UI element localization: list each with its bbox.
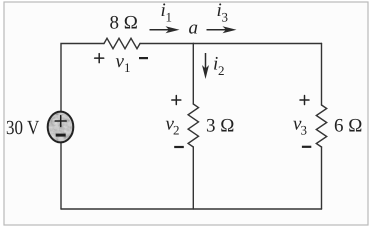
wire middle branch upper (node a down to R2) — [192, 44, 194, 105]
polarity plus of v3 — [300, 96, 309, 105]
current arrow i1 — [150, 26, 180, 33]
wire left upper (source top to top-left corner) + wire top-left to resistor R1 — [61, 44, 104, 113]
wire bottom — [61, 208, 322, 210]
polarity plus of v1 — [95, 54, 104, 63]
polarity plus of v2 — [172, 96, 181, 105]
polarity minus of v1 — [139, 57, 148, 59]
svg-text:3 Ω: 3 Ω — [206, 116, 234, 137]
current arrow i2 — [202, 53, 209, 79]
current arrow i3 — [207, 26, 237, 33]
minus bar inside source — [56, 134, 66, 137]
svg-text:8 Ω: 8 Ω — [110, 13, 138, 34]
wire left lower (source bottom to bottom-left corner) — [60, 142, 62, 209]
wire right lower (R3 to bottom-right corner) — [321, 147, 323, 209]
polarity minus of v3 — [302, 146, 311, 148]
resistor R3 6 ohm zigzag — [316, 105, 326, 147]
svg-text:30 V: 30 V — [6, 117, 40, 139]
voltage source 30 V — [46, 110, 76, 145]
resistor R2 3 ohm zigzag — [188, 104, 198, 147]
svg-text:3: 3 — [222, 10, 229, 25]
svg-text:2: 2 — [218, 63, 225, 78]
wire top-middle (R1 to node a) — [140, 43, 193, 45]
wire top-right (node a to top-right corner) — [193, 43, 321, 45]
resistor R1 8 ohm zigzag — [104, 38, 140, 48]
wire middle branch lower (R2 to bottom wire) — [192, 147, 194, 209]
svg-text:6 Ω: 6 Ω — [334, 116, 362, 137]
svg-text:2: 2 — [173, 123, 180, 138]
svg-text:3: 3 — [301, 123, 308, 138]
plus sign inside source — [55, 116, 66, 127]
wire right upper (top-right corner down to R3) — [321, 44, 323, 106]
svg-text:a: a — [189, 18, 199, 39]
polarity minus of v2 — [174, 146, 184, 148]
svg-text:1: 1 — [124, 60, 131, 75]
svg-text:1: 1 — [166, 10, 173, 25]
